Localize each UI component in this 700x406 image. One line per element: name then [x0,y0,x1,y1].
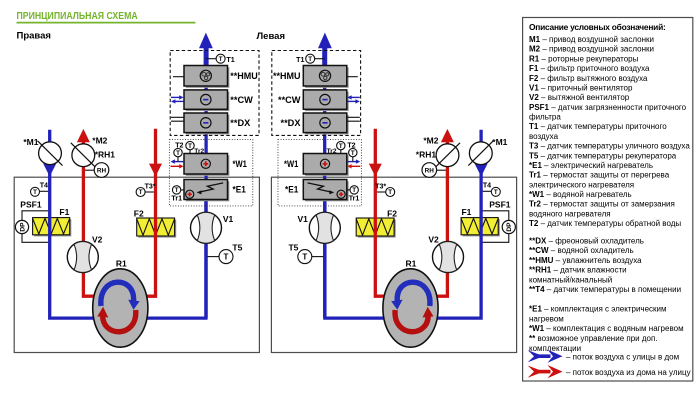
svg-text:Описание условных обозначений:: Описание условных обозначений: [529,22,666,32]
svg-text:– поток воздуха из дома на ул: – поток воздуха из дома на улицу [566,368,691,377]
supply air arrow into unit (blue, unit 2 Левая) [475,164,488,177]
svg-text:V2 – вытяжной вентилятор: V2 – вытяжной вентилятор [529,93,630,102]
svg-text:**DX – фреоновый охладитель: **DX – фреоновый охладитель [529,237,644,246]
svg-text:*E1: *E1 [285,185,299,196]
exhaust air arrow into unit (red, unit 2 Левая) [369,164,382,177]
sensor T5 rotor temperature (unit 2 Левая) [298,250,324,264]
wire: supply duct through stack (blue, unit 2 Левая) [323,47,326,318]
svg-text:**CW: **CW [278,95,301,106]
svg-text:*W1: *W1 [233,159,248,170]
svg-text:T2 – датчик температуры обрат: T2 – датчик температуры обратной воды [529,219,681,228]
svg-text:PSF1: PSF1 [489,200,511,210]
humidifier HMU (unit 1 Правая) [184,66,229,88]
CW water pipes arrows (unit 2 Левая) [350,96,360,98]
svg-text:*E1 – комплектация с электриче: *E1 – комплектация с электрическим [529,304,667,313]
thermostat Tr2 water-heater frost protection (unit 2 Левая) [337,141,345,153]
svg-text:**RH1 – датчик влажности: **RH1 – датчик влажности [529,266,627,275]
supply air arrow to room (blue, top of stack, unit 1 Правая) [204,47,209,66]
rotor heat exchanger R1 (unit 2 Левая) [383,269,438,347]
svg-text:T3*: T3* [145,182,156,190]
thermostat Tr2 water-heater frost protection (unit 1 Правая) [186,141,194,153]
CW water pipes arrows (unit 1 Правая) [171,96,181,98]
legend box [523,18,693,382]
water cooler CW (unit 1 Правая) [184,90,229,111]
wire: supply duct through stack (blue, unit 1 Правая) [204,47,207,318]
svg-text:**T4 – датчик температуры в по: **T4 – датчик температуры в помещении [529,285,681,294]
HMU supply stub (unit 2 Левая) [347,76,358,78]
dashed optional-section box HMU/CW/DX (unit 2 Левая) [272,51,361,136]
svg-text:RH: RH [97,167,107,174]
damper actuator M1 (unit 1 Правая) [38,141,63,166]
svg-text:воздуха: воздуха [529,132,559,141]
water heater W1 (unit 2 Левая) [303,154,348,176]
legend text [529,35,690,353]
wire: exhaust duct from room (red, unit 1 Правая) [120,129,156,297]
svg-text:T: T [388,189,392,196]
svg-text:V1: V1 [223,214,234,224]
fan V2 (unit 2 Левая) [433,242,464,273]
svg-text:V1: V1 [297,214,308,224]
svg-text:T: T [494,189,498,196]
svg-text:*W1 – водяной нагреватель: *W1 – водяной нагреватель [529,190,632,199]
svg-text:T: T [302,253,307,262]
svg-text:T: T [224,253,229,262]
dotted optional-section box W1/E1 (unit 1 Правая) [169,140,252,206]
svg-text:T: T [175,187,179,194]
exhaust air arrow to outside (red, unit 1 Правая) [77,129,90,142]
damper actuator M2 (unit 2 Левая) [435,143,460,168]
svg-text:T: T [188,143,192,150]
svg-text:**CW – водяной охладитель: **CW – водяной охладитель [529,246,634,255]
svg-text:**HMU: **HMU [230,71,258,82]
svg-text:F2: F2 [134,208,144,218]
svg-text:Левая: Левая [257,31,286,42]
pressure sensor PSF1 (DP) across F1 (unit 1 Правая) [15,211,48,243]
rotor heat exchanger R1 (unit 1 Правая) [93,269,148,347]
thermostat Tr1 overheat protection (unit 1 Правая) [172,186,184,194]
sensor T2 return water temperature (unit 2 Левая) [349,148,357,161]
svg-text:*W1 – комплектация с водяным н: *W1 – комплектация с водяным нагревом [529,324,684,333]
svg-text:T1: T1 [296,56,304,64]
sensor T3 outdoor air temperature (unit 2 Левая) [377,188,395,197]
svg-text:M2 – привод воздушной заслонки: M2 – привод воздушной заслонки [529,45,654,54]
svg-text:Tr1: Tr1 [349,195,360,203]
sensor T2 return water temperature (unit 1 Правая) [174,148,182,161]
svg-text:Tr2 – термостат защиты от заме: Tr2 – термостат защиты от замерзания [529,200,675,209]
filter F2 (unit 2 Левая) [356,218,395,238]
thermostat Tr1 overheat protection (unit 2 Левая) [347,186,359,194]
fan V1 (unit 1 Правая) [191,212,222,243]
svg-text:T1: T1 [226,56,234,64]
svg-text:Правая: Правая [17,30,51,41]
filter F1 (unit 2 Левая) [461,218,500,237]
unit casing box (unit 1 Правая) [14,177,259,352]
pressure sensor PSF1 (DP) across F1 (unit 2 Левая) [483,211,516,243]
freon cooler DX (unit 1 Правая) [184,113,229,134]
svg-text:*RH1: *RH1 [95,150,116,160]
svg-text:R1 – роторные рекуператоры: R1 – роторные рекуператоры [529,54,639,63]
DX refrigerant stubs (unit 2 Левая) [347,117,360,121]
title underline [17,22,196,24]
HMU supply stub (unit 1 Правая) [173,76,184,78]
svg-text:T: T [33,189,37,196]
svg-text:F1 – фильтр приточного воздуха: F1 – фильтр приточного воздуха [529,64,650,73]
unit casing box (unit 2 Левая) [271,177,516,352]
svg-text:T3*: T3* [375,182,386,190]
sensor T1 supply air temperature (unit 1 Правая) [206,54,225,63]
freon cooler DX (unit 2 Левая) [303,113,348,134]
sensor T4 room temperature (unit 1 Правая) [31,187,49,196]
fan V1 (unit 2 Левая) [309,212,340,243]
svg-text:Tr1 – термостат защиты от пере: Tr1 – термостат защиты от перегрева [529,171,670,180]
svg-text:*M2: *M2 [423,136,438,146]
svg-text:нагревом: нагревом [529,314,564,323]
electric heater E1 (unit 2 Левая) [303,180,348,202]
svg-text:RH: RH [425,167,435,174]
humidifier HMU (unit 2 Левая) [303,66,348,88]
svg-text:водяного нагревателя: водяного нагревателя [529,209,611,218]
wire: exhaust duct to outside (red, unit 1 Правая) [83,141,120,297]
svg-text:T4: T4 [40,182,48,190]
svg-text:T5: T5 [288,243,298,253]
electric heater E1 (unit 1 Правая) [184,180,229,202]
svg-text:F2: F2 [387,208,397,218]
svg-text:*M1: *M1 [23,137,38,147]
svg-text:Tr2: Tr2 [327,148,337,155]
supply air arrow to room (blue, top of stack, unit 2 Левая) [322,47,327,66]
W1 water pipes arrows (unit 2 Левая) [347,161,358,163]
wire: exhaust duct from room (red, unit 2 Левая) [375,129,411,297]
svg-text:PSF1 – датчик загрязненности п: PSF1 – датчик загрязненности приточного [529,103,687,112]
svg-text:– поток воздуха с улицы в дом: – поток воздуха с улицы в дом [566,353,679,362]
svg-text:V2: V2 [428,234,439,244]
W1 water pipes arrows (unit 1 Правая) [173,161,184,163]
svg-text:*E1 – электрический нагревател: *E1 – электрический нагреватель [529,161,653,170]
svg-text:F2 – фильтр вытяжного воздуха: F2 – фильтр вытяжного воздуха [529,74,648,83]
svg-text:*M1: *M1 [492,137,507,147]
svg-text:*W1: *W1 [284,159,299,170]
svg-text:фильтра: фильтра [529,113,561,122]
legend arrow: street-to-house air flow (blue) [528,350,563,363]
svg-text:T1 – датчик температуры приточ: T1 – датчик температуры приточного [529,122,667,131]
svg-text:T: T [352,187,356,194]
legend arrow: house-to-street air flow (red) [528,365,563,378]
humidity sensor RH1 (unit 2 Левая) [422,163,446,178]
sensor T5 rotor temperature (unit 1 Правая) [208,250,234,264]
svg-text:V2: V2 [92,234,103,244]
svg-text:F1: F1 [59,207,69,217]
svg-text:*E1: *E1 [233,185,247,196]
svg-text:T4: T4 [483,182,491,190]
svg-text:T3 – датчик температуры улично: T3 – датчик температуры уличного воздуха [529,142,690,151]
svg-text:T: T [139,189,143,196]
svg-text:T5: T5 [232,243,242,253]
svg-text:M1 – привод воздушной заслонки: M1 – привод воздушной заслонки [529,35,654,44]
svg-text:T: T [351,150,355,157]
filter F2 (unit 1 Правая) [137,218,177,238]
water heater W1 (unit 1 Правая) [184,154,229,176]
svg-text:электрического нагревателя: электрического нагревателя [529,180,634,189]
svg-text:T5 – датчик температуры рекупе: T5 – датчик температуры рекуператора [529,151,677,160]
svg-text:**DX: **DX [230,118,251,129]
svg-text:Tr1: Tr1 [171,195,182,203]
DX refrigerant stubs (unit 1 Правая) [171,117,184,121]
svg-text:R1: R1 [116,258,127,268]
svg-text:T: T [339,143,343,150]
exhaust air arrow to outside (red, unit 2 Левая) [441,129,454,142]
exhaust air arrow into unit (red, unit 1 Правая) [149,164,162,177]
wire: exhaust duct to outside (red, unit 2 Левая) [411,141,448,297]
svg-text:Tr2: Tr2 [194,148,204,155]
svg-text:** возможное управление при до: ** возможное управление при доп. [529,334,658,343]
svg-text:V1 – приточный вентилятор: V1 – приточный вентилятор [529,83,633,92]
dotted optional-section box W1/E1 (unit 2 Левая) [278,140,361,206]
sensor T3 outdoor air temperature (unit 1 Правая) [136,188,154,197]
svg-text:**CW: **CW [230,95,253,106]
water cooler CW (unit 2 Левая) [303,90,348,111]
svg-text:DP: DP [506,222,513,232]
svg-text:**HMU: **HMU [273,71,301,82]
sensor T1 supply air temperature (unit 2 Левая) [306,54,325,63]
svg-text:T: T [176,150,180,157]
supply air arrow into unit (blue, unit 1 Правая) [43,164,56,177]
svg-text:**DX: **DX [281,118,302,129]
svg-text:**HMU – увлажнитель воздуха: **HMU – увлажнитель воздуха [529,256,642,265]
svg-text:T2: T2 [175,141,183,149]
svg-text:T2: T2 [347,141,355,149]
wire: outdoor-air supply duct (blue, unit 2 Левая) [325,130,481,318]
fan V2 (unit 1 Правая) [67,242,98,273]
svg-text:T: T [308,56,312,63]
svg-text:R1: R1 [406,258,417,268]
damper actuator M2 (unit 1 Правая) [71,143,96,168]
svg-text:ПРИНЦИПИАЛЬНАЯ СХЕМА: ПРИНЦИПИАЛЬНАЯ СХЕМА [17,10,138,22]
svg-text:T: T [219,56,223,63]
svg-text:F1: F1 [461,207,471,217]
svg-text:DP: DP [19,222,26,232]
damper actuator M1 (unit 2 Левая) [468,141,493,166]
svg-text:PSF1: PSF1 [20,200,42,210]
svg-text:*RH1: *RH1 [416,150,437,160]
svg-text:*M2: *M2 [92,136,107,146]
humidity sensor RH1 (unit 1 Правая) [85,163,109,178]
sensor T4 room temperature (unit 2 Левая) [483,187,501,196]
wire: outdoor-air supply duct (blue, unit 1 Правая) [50,130,206,318]
filter F1 (unit 1 Правая) [33,218,72,237]
dashed optional-section box HMU/CW/DX (unit 1 Правая) [170,51,259,136]
svg-text:комнатный/канальный: комнатный/канальный [529,276,612,285]
